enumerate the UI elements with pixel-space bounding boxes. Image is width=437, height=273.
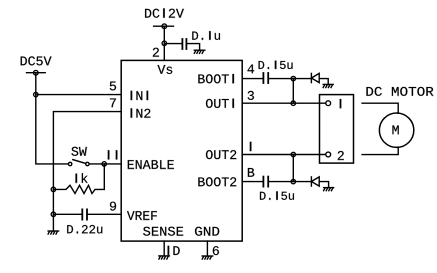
pin number 8 bbox=[248, 168, 254, 177]
pin name OUT1 bbox=[206, 99, 234, 108]
diode D2 cathode bar bbox=[310, 177, 312, 186]
pin number 10 bbox=[168, 246, 180, 255]
terminal DC12V bar bbox=[154, 25, 174, 27]
diode D2 triangle bbox=[311, 177, 319, 186]
junction OUT1 node bbox=[291, 101, 295, 105]
wire SENSE pin 10 to ground bbox=[163, 241, 165, 256]
diode D1 triangle bbox=[311, 73, 319, 82]
connector pin label 1 bbox=[340, 99, 342, 108]
value label 0.1u bbox=[192, 31, 220, 40]
junction OUT2 node bbox=[291, 152, 295, 156]
motor M1 circle bbox=[379, 113, 413, 147]
wire BOOT2 to C4 bbox=[242, 181, 262, 183]
junction Vs node bbox=[162, 41, 166, 45]
pin number 6 bbox=[213, 246, 219, 255]
pin name SENSE bbox=[143, 227, 183, 236]
wire connector 2 to motor bottom bbox=[362, 147, 398, 155]
pin name IN2 bbox=[131, 108, 151, 117]
ground for D1 bbox=[323, 84, 333, 87]
pin name GND bbox=[195, 227, 219, 236]
pin name VREF bbox=[127, 211, 157, 220]
pin number 7 bbox=[110, 98, 116, 107]
switch SW left contact bbox=[68, 162, 71, 165]
wire connector 1 to motor top bbox=[362, 103, 398, 113]
pin number 2 bbox=[153, 48, 159, 57]
op-amp-driver IC U1 body bbox=[121, 60, 242, 241]
wire D1 anode to ground bbox=[319, 79, 328, 85]
capacitor C1 0.1u plates bbox=[182, 39, 186, 49]
wire R1 up to ENABLE node bbox=[103, 164, 105, 190]
wire OUT2 node to BOOT2 node bbox=[292, 155, 294, 182]
wire C3 to diode D1 bbox=[268, 78, 311, 80]
capacitor C2 0.22u plates bbox=[82, 209, 87, 219]
pin name OUT2 bbox=[206, 150, 236, 159]
resistor R1 1k zigzag bbox=[53, 185, 104, 193]
junction BOOT2 node bbox=[291, 179, 295, 183]
pin number 1 bbox=[250, 142, 252, 151]
pin name BOOT2 bbox=[198, 177, 236, 186]
pin name Vs bbox=[157, 65, 172, 74]
wire C2 to IC pin 9 VREF bbox=[87, 213, 121, 215]
value label 0.15u bottom bbox=[260, 191, 294, 199]
diode D1 cathode bar bbox=[310, 73, 312, 82]
ground for C1 bbox=[194, 50, 205, 53]
connector J1 body bbox=[320, 95, 354, 164]
ground for IN2 rail bbox=[48, 231, 59, 234]
wire OUT1 to connector pin 1 bbox=[242, 102, 325, 104]
junction C2 left bbox=[51, 212, 55, 216]
wire C4 to diode D2 bbox=[268, 181, 311, 183]
ground for SENSE bbox=[159, 256, 170, 259]
capacitor C4 0.15u plates bbox=[263, 177, 268, 187]
junction BOOT1 node bbox=[291, 76, 295, 80]
wire IN2 from IC pin 7 down to ground rail bbox=[53, 112, 121, 231]
wire switch to IC pin 11 ENABLE bbox=[90, 163, 122, 165]
wire BOOT1 node to OUT1 node bbox=[292, 79, 294, 104]
motor label M bbox=[392, 125, 398, 134]
connector pin label 2 bbox=[338, 151, 344, 160]
pin name IN1 bbox=[131, 91, 149, 100]
pin number 9 bbox=[110, 202, 116, 211]
wire C1 to ground elbow bbox=[186, 44, 199, 51]
pin name ENABLE bbox=[128, 160, 174, 169]
junction DC5V / IN1 bbox=[34, 92, 38, 96]
pin number 11 bbox=[108, 150, 118, 159]
pin number 5 bbox=[110, 82, 116, 91]
pin number 3 bbox=[248, 91, 254, 100]
value label 0.22u bbox=[67, 225, 102, 233]
pin name BOOT1 bbox=[198, 74, 234, 83]
terminal DC5V circle bbox=[34, 70, 39, 75]
switch SW lever bbox=[73, 160, 85, 164]
junction R1 left bbox=[51, 187, 55, 191]
label DC MOTOR bbox=[366, 87, 433, 96]
wire Vs node to C1 bbox=[164, 43, 181, 45]
ground for D2 bbox=[324, 188, 334, 191]
wire BOOT1 to C3 bbox=[242, 78, 262, 80]
connector terminal 1 circle bbox=[326, 101, 331, 106]
connector terminal 2 circle bbox=[326, 152, 331, 157]
wire GND pin 6 to ground bbox=[206, 241, 208, 256]
wire DC5V down and right to switch bbox=[36, 73, 68, 164]
wire DC12V to IC pin 2 Vs bbox=[163, 26, 165, 60]
capacitor C3 0.15u plates bbox=[263, 73, 268, 83]
wire D2 anode to ground bbox=[319, 182, 328, 188]
terminal DC5V bar bbox=[27, 72, 46, 74]
net label DC12V bbox=[145, 8, 184, 17]
terminal DC12V circle bbox=[162, 24, 167, 29]
switch SW label bbox=[71, 147, 86, 156]
pin number 4 bbox=[247, 65, 254, 74]
value label 0.15u top bbox=[259, 61, 293, 69]
resistor R1 label 1k bbox=[75, 173, 87, 183]
ground for GND bbox=[202, 256, 213, 259]
wire OUT2 to connector pin 2 bbox=[242, 154, 325, 156]
switch SW right contact bbox=[86, 162, 89, 165]
net label DC5V bbox=[21, 56, 52, 65]
junction ENABLE node bbox=[102, 162, 106, 166]
wire IN1 to IC pin 5 bbox=[36, 94, 121, 96]
wire rail to C2 bbox=[53, 213, 81, 215]
